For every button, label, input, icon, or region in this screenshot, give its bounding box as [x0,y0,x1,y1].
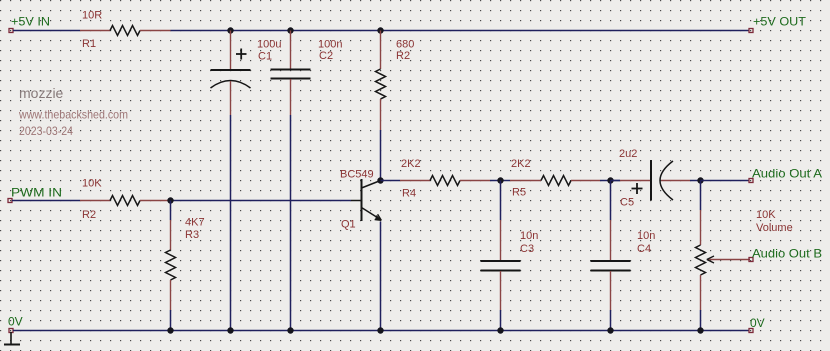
svg-text:R3: R3 [185,229,199,241]
wire pwm left [12,200,80,202]
svg-text:C5: C5 [620,197,634,209]
junction C1 bottom [227,327,233,333]
pad +5V OUT [749,29,753,33]
capacitor C4 (10n) [591,181,631,331]
svg-text:R1: R1 [82,38,96,50]
svg-text:680: 680 [396,39,414,51]
svg-text:10n: 10n [520,230,538,242]
junction R5/C4/C5 [607,177,613,183]
capacitor C3 (10n) [481,181,521,331]
pad Audio Out A [749,179,753,183]
resistor R1 [80,26,171,36]
svg-text:R5: R5 [512,187,526,199]
svg-text:C3: C3 [520,243,534,255]
svg-text:2023-03-24: 2023-03-24 [19,124,73,138]
junction R3 bottom [167,327,173,333]
svg-text:4K7: 4K7 [185,217,205,229]
junction at C2 top [287,27,293,33]
svg-text:0V: 0V [8,315,23,329]
junction Q1 emitter bottom [377,327,383,333]
resistor R5 (2K2) [510,176,600,186]
wire pwm to base [171,200,352,202]
svg-text:Volume: Volume [756,222,793,234]
wire to Audio Out A [701,180,750,182]
resistor R3 (4K7, vertical) [166,220,176,331]
junction R4/R5/C3 [497,177,503,183]
svg-text:mozzie: mozzie [19,85,64,101]
wire junction to R3 [170,201,172,221]
junction collector [377,177,383,183]
resistor R4 (2K2) [400,176,490,186]
svg-text:C1: C1 [258,51,272,63]
svg-text:2K2: 2K2 [511,158,531,170]
capacitor C1 (electrolytic) [211,31,251,331]
pad PWM IN [8,199,12,203]
junction at R2 top [377,27,383,33]
svg-text:10R: 10R [82,10,102,22]
svg-text:R2: R2 [82,209,96,221]
pad 0V left [9,329,13,333]
resistor R2 (10K pwm) [80,196,171,206]
svg-text:+5V IN: +5V IN [11,15,50,29]
svg-text:2u2: 2u2 [619,148,637,160]
svg-text:C2: C2 [319,50,333,62]
svg-text:Q1: Q1 [341,219,356,231]
svg-text:+5V OUT: +5V OUT [753,15,807,29]
junction C4 bottom [607,327,613,333]
svg-text:PWM IN: PWM IN [11,186,62,200]
junction C5/pot [697,177,703,183]
wire collector to R4 [381,180,401,182]
svg-text:10K: 10K [82,178,102,190]
svg-text:C4: C4 [637,243,651,255]
potentiometer VR (10K Volume) [696,181,751,331]
wire top rail left [13,30,80,32]
junction at C1 top [227,27,233,33]
junction R2/R3 [167,197,173,203]
svg-text:10K: 10K [756,209,776,221]
wire bottom rail [13,330,749,332]
svg-text:Audio Out B: Audio Out B [752,247,822,261]
svg-text:Audio Out A: Audio Out A [752,167,822,181]
svg-text:100u: 100u [257,39,281,51]
svg-text:100n: 100n [318,39,342,51]
svg-text:R2: R2 [396,50,410,62]
svg-text:www.thebackshed.com: www.thebackshed.com [18,108,128,122]
transistor Q1 [351,179,381,221]
svg-text:R4: R4 [402,188,416,200]
wire top rail right [171,30,750,32]
svg-text:BC549: BC549 [340,169,374,181]
pad 0V right [749,329,753,333]
svg-text:10n: 10n [637,230,655,242]
resistor R2 (680, vertical) [376,31,386,180]
svg-text:0V: 0V [750,316,765,330]
junction C3 bottom [497,327,503,333]
svg-text:2K2: 2K2 [401,158,421,170]
capacitor C2 [271,31,311,331]
pad +5V IN [9,29,13,33]
capacitor C5 (2u2 electrolytic, horizontal) [611,160,701,201]
junction pot bottom [697,327,703,333]
wire R5 to junction [600,180,620,182]
wire emitter down [380,222,382,331]
ground symbol [4,332,20,345]
junction C2 bottom [287,327,293,333]
pad Audio Out B [749,258,753,262]
wire R4 to junction [490,180,510,182]
